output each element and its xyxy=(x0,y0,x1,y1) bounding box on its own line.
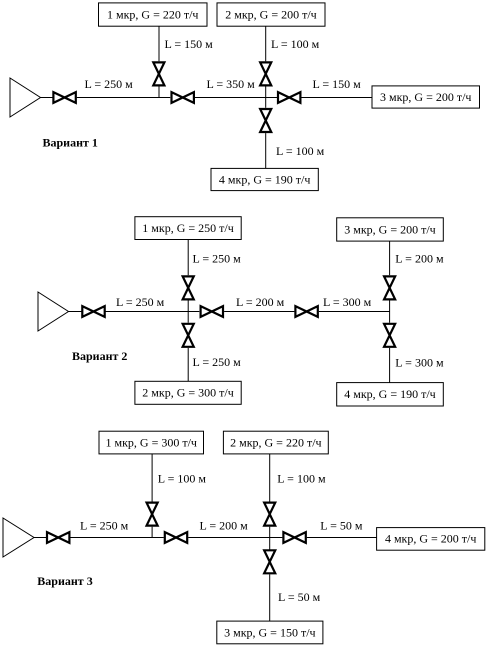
consumer box 4 мкр G=200 т/ч (v3) xyxy=(377,528,485,551)
svg-text:2 мкр, G = 220 т/ч: 2 мкр, G = 220 т/ч xyxy=(230,435,321,449)
svg-text:L = 100 м: L = 100 м xyxy=(271,37,320,51)
valve: branch to consumer 1 (v3) xyxy=(147,503,158,526)
svg-text:4 мкр, G = 190 т/ч: 4 мкр, G = 190 т/ч xyxy=(344,387,435,401)
svg-text:L = 300 м: L = 300 м xyxy=(323,295,372,309)
wire: node 2 down to valve (v2) xyxy=(389,312,391,323)
wire: consumer 2 box down to valve (v3) xyxy=(269,454,271,502)
svg-text:L = 100 м: L = 100 м xyxy=(158,472,207,486)
svg-text:4 мкр, G = 190 т/ч: 4 мкр, G = 190 т/ч xyxy=(219,172,310,186)
wire: valve down to node 1 (v2) xyxy=(187,301,189,312)
wire: valve down to node 1 (v3) xyxy=(151,527,153,538)
wire: valve to valve, junction node 2 at x=269.7 (v3) xyxy=(188,537,282,539)
wire: valve down to node 2 (v1) xyxy=(265,87,267,98)
valve: right of node 2 (v3) xyxy=(283,532,305,543)
consumer box 4 мкр G=190 т/ч (v1) xyxy=(211,168,318,190)
svg-text:Вариант 3: Вариант 3 xyxy=(37,574,92,588)
svg-text:1 мкр, G = 220 т/ч: 1 мкр, G = 220 т/ч xyxy=(107,7,198,21)
wire: valve down to consumer 3 box (v3) xyxy=(269,574,271,621)
consumer box 3 мкр G=150 т/ч (v3) xyxy=(217,621,323,644)
svg-text:L = 50 м: L = 50 м xyxy=(278,590,321,604)
valve: left of node 2 (v2) xyxy=(295,306,317,317)
svg-text:1 мкр, G = 250 т/ч: 1 мкр, G = 250 т/ч xyxy=(142,221,233,235)
valve: branch down to consumer 4 (v2) xyxy=(384,324,395,347)
wire: valve down to node 2 (v3) xyxy=(269,527,271,538)
valve: branch down to consumer 3 (v3) xyxy=(264,550,275,573)
valve: branch down to consumer 2 (v2) xyxy=(183,324,194,347)
svg-text:L = 100 м: L = 100 м xyxy=(277,472,326,486)
wire: valve to valve, junction node 1 at x=159 (v1) xyxy=(77,97,170,99)
svg-text:2 мкр, G = 300 т/ч: 2 мкр, G = 300 т/ч xyxy=(142,386,233,400)
consumer box 2 мкр G=220 т/ч (v3) xyxy=(223,431,328,454)
wire: source to valve (v1) xyxy=(41,97,53,99)
wire: node 1 down to valve (v2) xyxy=(187,312,189,323)
consumer box 1 мкр G=220 т/ч (v1) xyxy=(99,3,208,26)
source triangle (variant 1) xyxy=(10,78,41,117)
consumer box 2 мкр G=200 т/ч (v1) xyxy=(217,3,325,26)
svg-text:L = 250 м: L = 250 м xyxy=(193,252,242,266)
svg-text:2 мкр, G = 200 т/ч: 2 мкр, G = 200 т/ч xyxy=(225,7,316,21)
valve: branch to consumer 4 (v1) xyxy=(260,109,271,132)
wire: consumer 1 box down to valve (v2) xyxy=(187,240,189,276)
svg-text:L = 100 м: L = 100 м xyxy=(276,144,325,158)
svg-text:L = 250 м: L = 250 м xyxy=(116,295,165,309)
wire: consumer 3 box down to valve (v2) xyxy=(389,241,391,275)
svg-text:Вариант 2: Вариант 2 xyxy=(72,349,127,363)
svg-text:Вариант 1: Вариант 1 xyxy=(43,136,98,150)
wire: valve down to node 1 (v1) xyxy=(158,87,160,98)
svg-text:L = 250 м: L = 250 м xyxy=(193,355,242,369)
valve: right of node 1 (v2) xyxy=(201,306,223,317)
consumer box 1 мкр G=300 т/ч (v3) xyxy=(99,431,204,454)
wire: node 2 down to valve (v1) xyxy=(265,98,267,108)
consumer box 4 мкр G=190 т/ч (v2) xyxy=(337,383,444,406)
wire: valve down to consumer 4 box (v1) xyxy=(265,133,267,168)
svg-text:L = 200 м: L = 200 м xyxy=(395,252,444,266)
wire: valve to valve, junction node 1 at x=152.1 (v3) xyxy=(71,537,164,539)
svg-text:L = 150 м: L = 150 м xyxy=(313,77,362,91)
wire: valve to valve, junction node 2 at x=265.7 (v1) xyxy=(195,97,277,99)
valve: branch to consumer 2 (v1) xyxy=(260,62,271,85)
wire: valve down to node 2 (v2) xyxy=(389,301,391,312)
svg-text:L = 300 м: L = 300 м xyxy=(395,356,444,370)
wire: valve down to consumer 4 box (v2) xyxy=(389,348,391,383)
wire: valve to junction node 2 at x=389.6 (v2) xyxy=(319,311,390,313)
wire: node 2 down to valve (v3) xyxy=(269,538,271,550)
svg-text:4 мкр, G = 200 т/ч: 4 мкр, G = 200 т/ч xyxy=(385,532,476,546)
svg-text:L = 150 м: L = 150 м xyxy=(165,37,214,51)
source triangle (variant 3) xyxy=(3,518,34,557)
valve: branch up to consumer 2 (v3) xyxy=(264,503,275,526)
source triangle (variant 2) xyxy=(38,292,69,331)
wire: valve to consumer 3 box (v1) xyxy=(301,97,372,99)
svg-text:L = 250 м: L = 250 м xyxy=(85,77,134,91)
valve: between node 2 and consumer 3 (v1) xyxy=(278,92,300,103)
consumer box 3 мкр G=200 т/ч (v2) xyxy=(337,218,444,241)
valve: source outlet (v2) xyxy=(82,306,104,317)
svg-text:L = 50 м: L = 50 м xyxy=(320,519,363,533)
wire: consumer 2 box down to valve (v1) xyxy=(265,26,267,61)
valve: between node 1 and node 2 (v1) xyxy=(172,92,194,103)
wire: source to valve (v2) xyxy=(69,311,82,313)
consumer box 3 мкр G=200 т/ч (v1) xyxy=(372,86,480,108)
svg-text:3 мкр, G = 150 т/ч: 3 мкр, G = 150 т/ч xyxy=(224,625,315,639)
wire: consumer 1 box down to valve (v3) xyxy=(151,454,153,502)
svg-text:3 мкр, G = 200 т/ч: 3 мкр, G = 200 т/ч xyxy=(344,222,435,236)
consumer box 1 мкр G=250 т/ч (v2) xyxy=(135,217,241,240)
svg-text:L = 200 м: L = 200 м xyxy=(200,519,249,533)
wire: valve down to consumer 2 box (v2) xyxy=(187,348,189,381)
valve: source outlet (v3) xyxy=(47,532,69,543)
valve: branch to consumer 1 (v1) xyxy=(153,62,164,85)
svg-text:1 мкр, G = 300 т/ч: 1 мкр, G = 300 т/ч xyxy=(106,435,197,449)
svg-text:L = 250 м: L = 250 м xyxy=(80,519,129,533)
svg-text:3 мкр, G = 200 т/ч: 3 мкр, G = 200 т/ч xyxy=(380,90,471,104)
wire: source to valve (v3) xyxy=(34,537,46,539)
valve: source outlet (v1) xyxy=(53,92,75,103)
svg-text:L = 350 м: L = 350 м xyxy=(207,77,256,91)
valve: right of node 1 (v3) xyxy=(165,532,187,543)
wire: consumer 1 box down to valve (v1) xyxy=(158,26,160,61)
wire: valve to consumer 4 box (v3) xyxy=(307,537,377,539)
svg-text:L = 200 м: L = 200 м xyxy=(236,295,285,309)
valve: branch up to consumer 3 (v2) xyxy=(384,276,395,299)
consumer box 2 мкр G=300 т/ч (v2) xyxy=(135,381,241,404)
wire: valve to valve (v2 middle) xyxy=(224,311,294,313)
wire: valve to valve, junction node 1 at x=188.2 (v2) xyxy=(106,311,200,313)
valve: branch up to consumer 1 (v2) xyxy=(183,276,194,299)
